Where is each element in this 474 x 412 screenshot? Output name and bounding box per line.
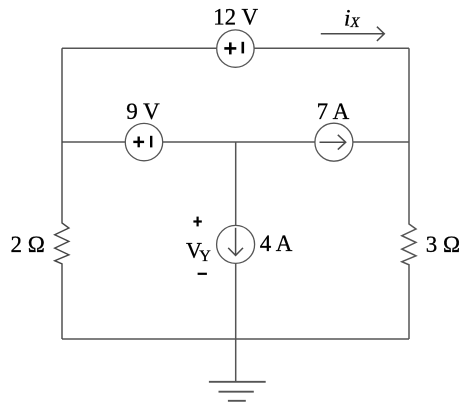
svg-text:9 V: 9 V <box>126 99 160 124</box>
svg-text:Y: Y <box>199 248 211 265</box>
svg-text:7 A: 7 A <box>317 99 350 124</box>
svg-text:4 A: 4 A <box>260 231 293 256</box>
svg-text:12 V: 12 V <box>213 4 258 29</box>
svg-text:3 Ω: 3 Ω <box>426 232 460 257</box>
svg-text:2 Ω: 2 Ω <box>11 232 45 257</box>
